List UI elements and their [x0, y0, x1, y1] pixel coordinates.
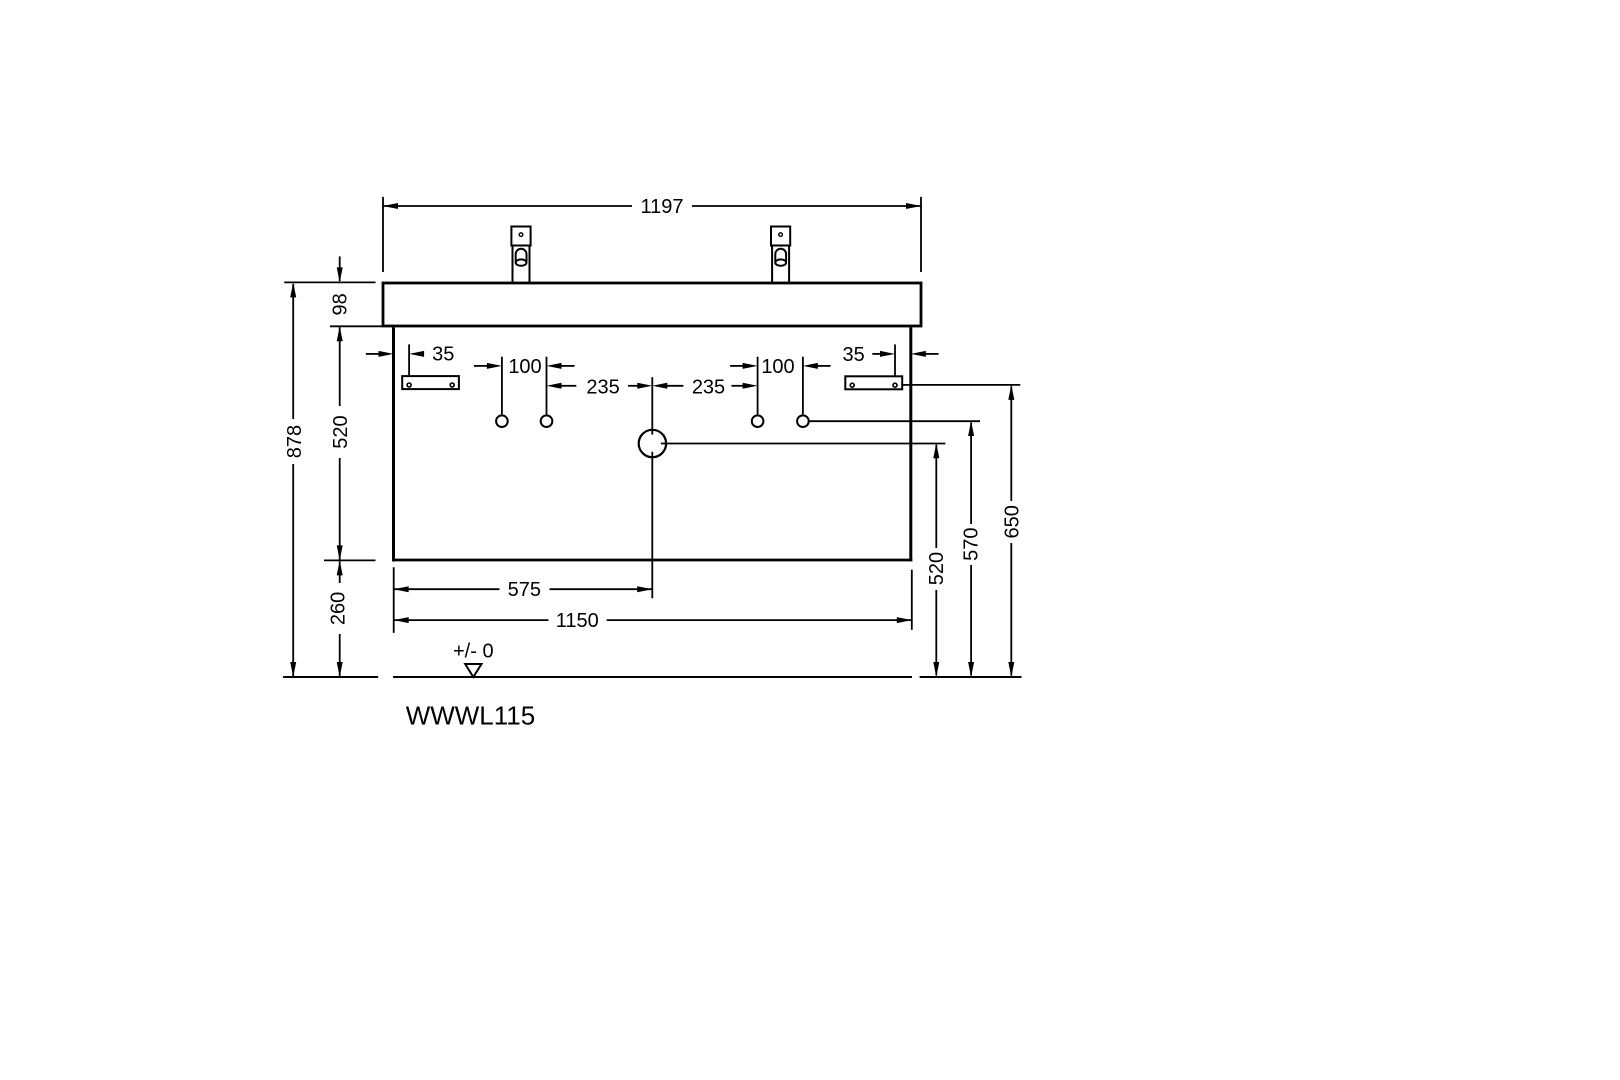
dimension 98	[339, 256, 341, 281]
drain centerline	[651, 377, 653, 434]
svg-text:235: 235	[692, 377, 725, 399]
dimension 100 right	[757, 357, 759, 415]
extension line hole right to 570	[809, 420, 980, 422]
svg-text:35: 35	[432, 343, 454, 365]
tap holes right pair	[752, 415, 764, 427]
svg-text:520: 520	[926, 552, 948, 585]
extension line below cabinet right	[911, 570, 913, 630]
dimension 100 left	[501, 357, 503, 415]
floor line	[283, 676, 378, 678]
faucet left	[511, 227, 530, 284]
extension line cabinet bottom left	[324, 559, 376, 561]
svg-text:235: 235	[586, 377, 619, 399]
extension line basin bottom left	[330, 325, 382, 327]
dimension 35 left	[408, 344, 410, 376]
dimension 260	[339, 561, 341, 583]
dimension 1150	[394, 619, 549, 621]
drain circle	[639, 430, 666, 457]
washbasin body	[383, 283, 921, 326]
datum triangle	[465, 664, 481, 677]
svg-text:WWWL115: WWWL115	[406, 701, 536, 731]
extension line basin top left	[284, 281, 375, 283]
dimension 570 right	[970, 423, 972, 525]
dimension 35 right	[894, 344, 896, 376]
svg-text:570: 570	[961, 528, 983, 561]
dimension 235 right	[652, 383, 667, 389]
dimension 650 right	[1010, 386, 1012, 501]
svg-text:+/- 0: +/- 0	[453, 640, 494, 662]
svg-text:98: 98	[329, 293, 351, 315]
svg-text:260: 260	[328, 592, 350, 625]
svg-text:1150: 1150	[556, 610, 599, 632]
dimension 1197	[383, 197, 921, 272]
mounting bracket left	[402, 376, 459, 389]
dimension 235 left	[547, 383, 562, 389]
svg-text:520: 520	[330, 415, 352, 448]
extension line drain to 520	[661, 443, 945, 445]
svg-text:878: 878	[284, 425, 306, 458]
tap holes left pair	[496, 415, 508, 427]
dimension 520 left	[339, 327, 341, 406]
dimension 878	[292, 284, 294, 676]
cabinet right wall	[909, 327, 912, 561]
svg-text:1197: 1197	[640, 196, 683, 218]
extension line below cabinet left	[393, 567, 395, 633]
dimension 520 right	[935, 445, 937, 548]
svg-text:650: 650	[1001, 505, 1023, 538]
cabinet left wall	[392, 327, 395, 561]
svg-text:35: 35	[842, 344, 864, 366]
dimension 575	[394, 588, 500, 590]
mounting bracket right	[845, 376, 902, 389]
extension line bracket right to 650	[902, 384, 1020, 386]
svg-text:100: 100	[508, 356, 541, 378]
svg-text:575: 575	[508, 579, 541, 601]
svg-text:100: 100	[761, 356, 794, 378]
faucet right	[771, 227, 790, 284]
cabinet bottom	[392, 559, 912, 562]
